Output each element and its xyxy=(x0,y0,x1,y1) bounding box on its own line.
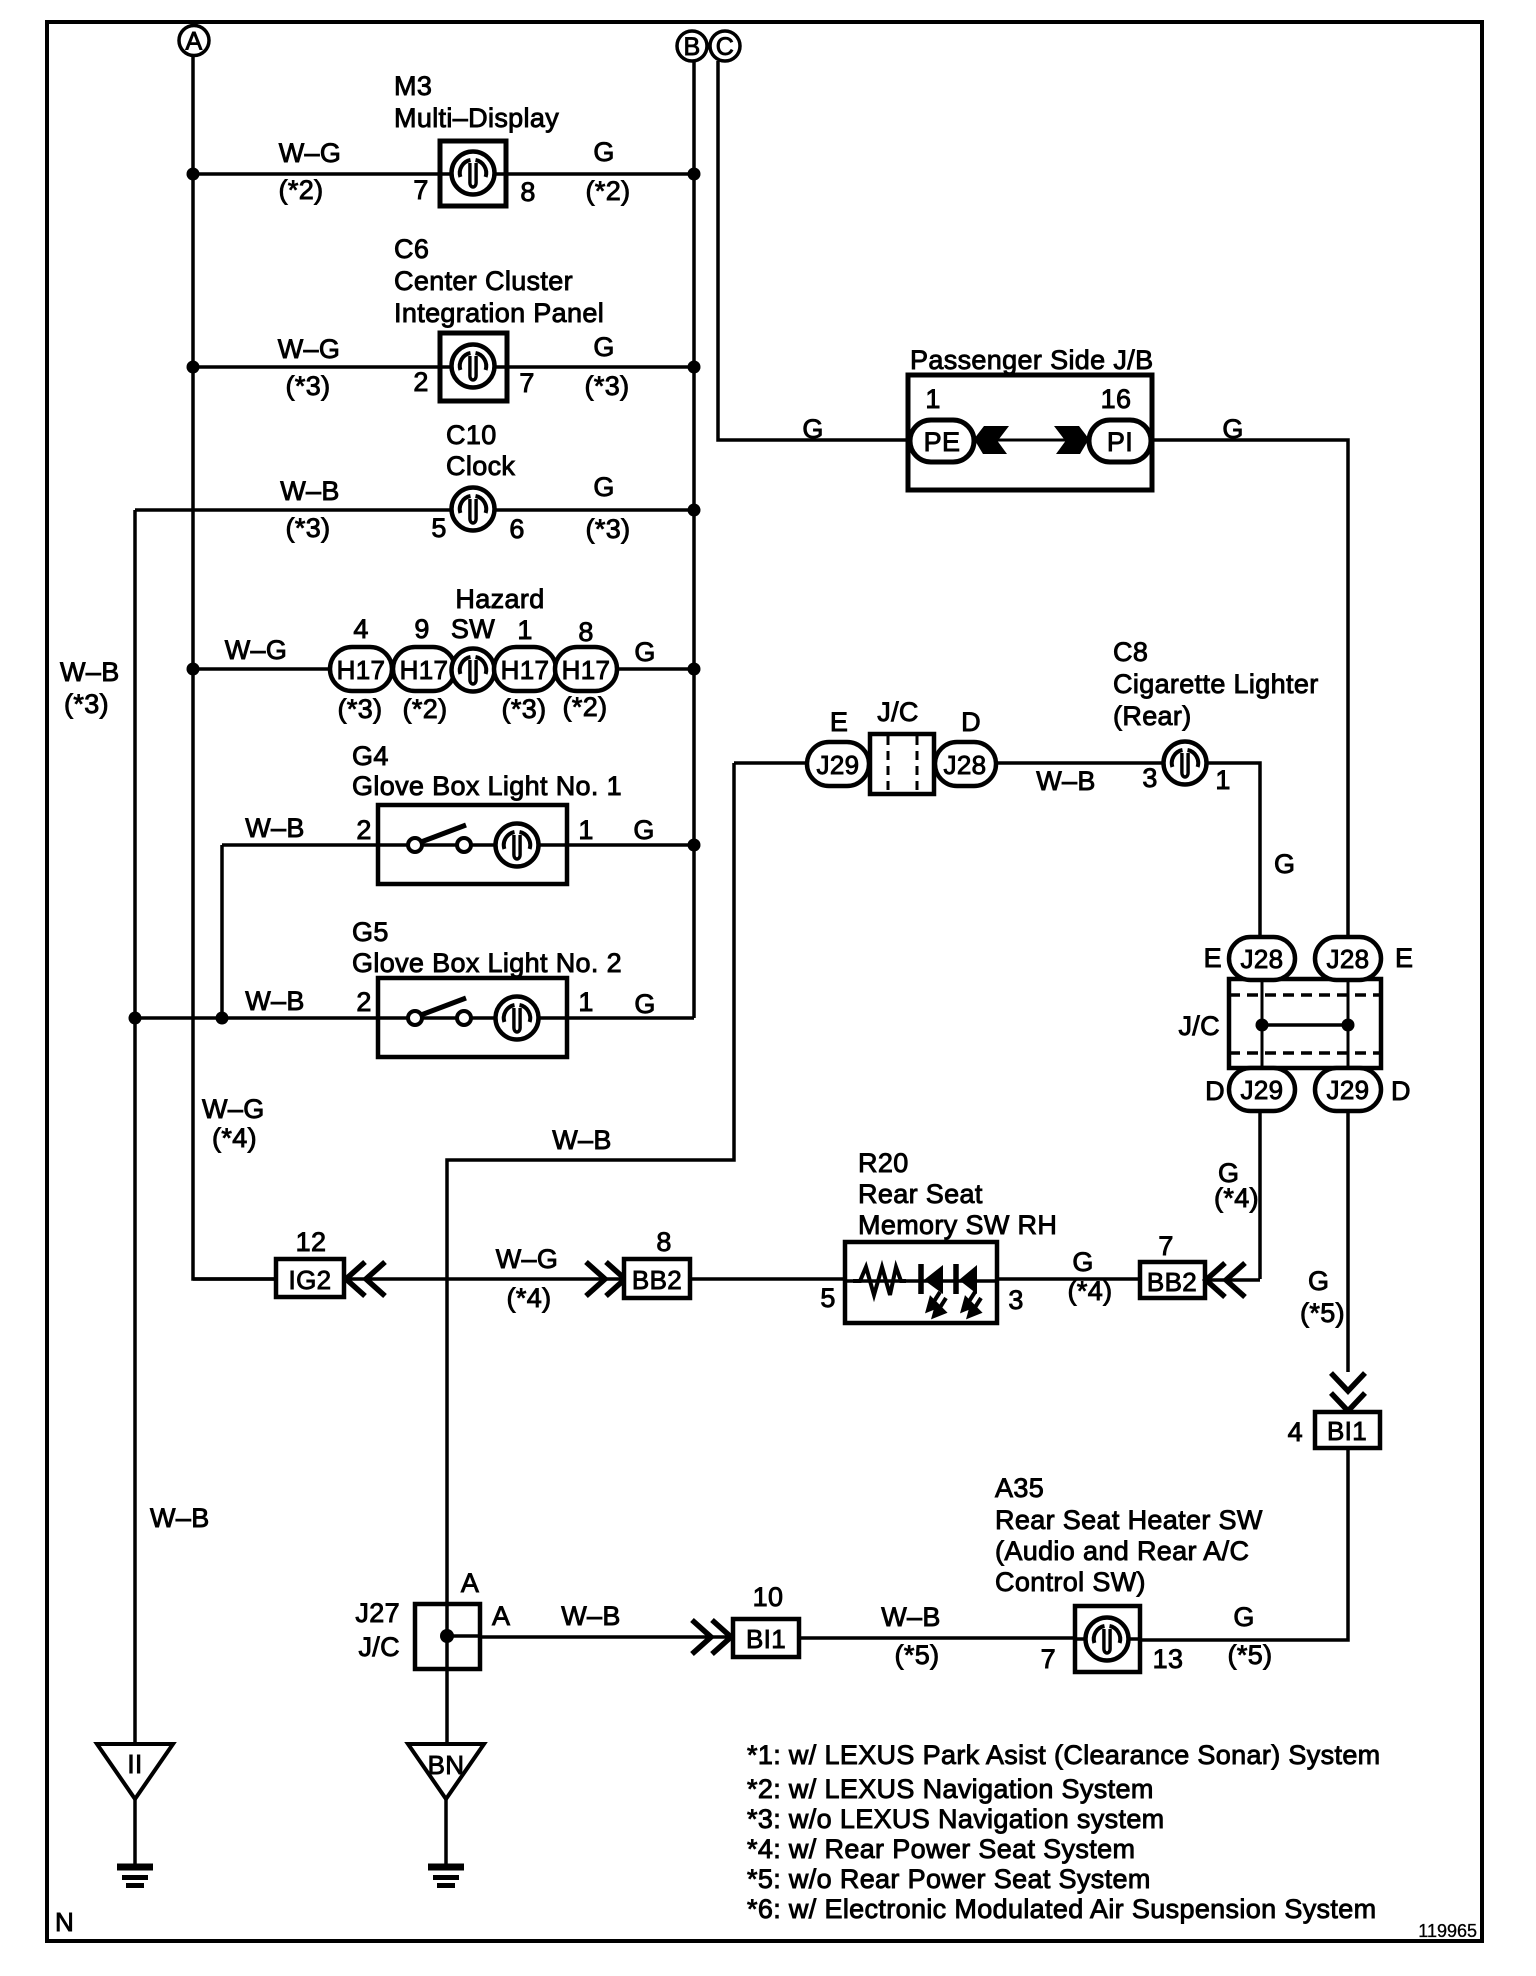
svg-text:(*4): (*4) xyxy=(1214,1183,1259,1213)
svg-text:J28: J28 xyxy=(944,750,987,780)
svg-text:BB2: BB2 xyxy=(1147,1267,1197,1297)
svg-text:5: 5 xyxy=(820,1283,835,1313)
svg-text:9: 9 xyxy=(414,614,429,644)
svg-text:W–B: W–B xyxy=(60,657,120,687)
svg-text:(*3): (*3) xyxy=(585,371,630,401)
svg-text:A: A xyxy=(185,28,202,56)
svg-text:J28: J28 xyxy=(1241,944,1284,974)
svg-text:(*2): (*2) xyxy=(586,176,631,206)
svg-text:*5: w/o Rear Power Seat System: *5: w/o Rear Power Seat System xyxy=(747,1864,1151,1894)
svg-text:(*4): (*4) xyxy=(1068,1276,1113,1306)
svg-text:G: G xyxy=(633,815,654,845)
svg-text:Glove Box Light No. 1: Glove Box Light No. 1 xyxy=(352,771,622,801)
svg-text:H17: H17 xyxy=(562,655,611,685)
svg-text:A: A xyxy=(492,1601,510,1631)
svg-text:W–G: W–G xyxy=(225,635,288,665)
svg-text:J29: J29 xyxy=(1327,1075,1370,1105)
svg-text:J/C: J/C xyxy=(877,697,919,727)
svg-text:Rear Seat Heater SW: Rear Seat Heater SW xyxy=(995,1505,1263,1535)
svg-text:R20: R20 xyxy=(858,1148,909,1178)
svg-text:BB2: BB2 xyxy=(632,1265,682,1295)
svg-text:Control SW): Control SW) xyxy=(995,1567,1146,1597)
svg-text:1: 1 xyxy=(925,384,940,414)
svg-text:2: 2 xyxy=(356,815,371,845)
svg-text:W–G: W–G xyxy=(202,1094,265,1124)
svg-text:119965: 119965 xyxy=(1418,1921,1477,1941)
svg-text:G: G xyxy=(634,989,655,1019)
svg-text:W–B: W–B xyxy=(245,813,305,843)
svg-text:Glove Box Light No. 2: Glove Box Light No. 2 xyxy=(352,948,622,978)
svg-text:10: 10 xyxy=(753,1582,784,1612)
svg-text:W–B: W–B xyxy=(552,1125,612,1155)
svg-text:Cigarette Lighter: Cigarette Lighter xyxy=(1113,669,1319,699)
svg-text:Integration Panel: Integration Panel xyxy=(394,298,604,328)
svg-text:J/C: J/C xyxy=(358,1632,400,1662)
svg-text:J27: J27 xyxy=(355,1598,400,1628)
svg-text:Passenger Side J/B: Passenger Side J/B xyxy=(910,345,1153,375)
svg-text:C6: C6 xyxy=(394,234,429,264)
svg-text:B: B xyxy=(683,33,700,61)
svg-text:N: N xyxy=(55,1907,74,1937)
svg-text:BI1: BI1 xyxy=(1327,1416,1367,1446)
svg-text:G: G xyxy=(593,472,614,502)
svg-text:W–B: W–B xyxy=(245,986,305,1016)
svg-text:4: 4 xyxy=(353,614,368,644)
svg-text:Hazard: Hazard xyxy=(455,584,544,614)
svg-text:C8: C8 xyxy=(1113,637,1148,667)
svg-text:(*5): (*5) xyxy=(895,1640,940,1670)
svg-text:M3: M3 xyxy=(394,71,432,101)
svg-text:J29: J29 xyxy=(817,750,860,780)
svg-text:C: C xyxy=(716,33,734,61)
svg-text:5: 5 xyxy=(431,513,446,543)
svg-text:(Audio and Rear A/C: (Audio and Rear A/C xyxy=(995,1536,1249,1566)
svg-text:A: A xyxy=(461,1568,479,1598)
svg-text:G: G xyxy=(1274,849,1295,879)
svg-text:G: G xyxy=(1233,1602,1254,1632)
svg-text:G: G xyxy=(1308,1266,1329,1296)
svg-text:Rear Seat: Rear Seat xyxy=(858,1179,983,1209)
svg-text:E: E xyxy=(830,707,848,737)
svg-text:12: 12 xyxy=(296,1227,327,1257)
svg-text:3: 3 xyxy=(1008,1285,1023,1315)
svg-text:W–B: W–B xyxy=(150,1503,210,1533)
svg-text:*1: w/ LEXUS Park Asist (Clear: *1: w/ LEXUS Park Asist (Clearance Sonar… xyxy=(747,1740,1381,1770)
svg-text:(*3): (*3) xyxy=(586,514,631,544)
svg-text:BN: BN xyxy=(428,1750,465,1780)
svg-text:1: 1 xyxy=(1215,765,1230,795)
svg-text:Clock: Clock xyxy=(446,451,515,481)
svg-text:G: G xyxy=(1072,1247,1093,1277)
svg-text:J/C: J/C xyxy=(1178,1011,1220,1041)
svg-text:(*5): (*5) xyxy=(1300,1298,1345,1328)
svg-text:Multi–Display: Multi–Display xyxy=(394,103,559,133)
svg-text:W–B: W–B xyxy=(881,1602,941,1632)
svg-text:E: E xyxy=(1204,943,1222,973)
svg-text:II: II xyxy=(127,1749,142,1779)
svg-text:G: G xyxy=(593,137,614,167)
svg-text:(*5): (*5) xyxy=(1228,1640,1273,1670)
svg-text:W–B: W–B xyxy=(280,476,340,506)
svg-text:H17: H17 xyxy=(337,655,386,685)
svg-text:(*3): (*3) xyxy=(286,513,331,543)
svg-text:SW: SW xyxy=(451,614,495,644)
svg-text:BI1: BI1 xyxy=(746,1624,786,1654)
svg-text:A35: A35 xyxy=(995,1473,1044,1503)
svg-text:J29: J29 xyxy=(1241,1075,1284,1105)
svg-text:(*2): (*2) xyxy=(279,175,324,205)
svg-text:16: 16 xyxy=(1101,384,1132,414)
svg-text:7: 7 xyxy=(519,368,534,398)
svg-text:Memory SW RH: Memory SW RH xyxy=(858,1210,1057,1240)
svg-text:(*2): (*2) xyxy=(563,692,608,722)
svg-text:8: 8 xyxy=(656,1227,671,1257)
svg-text:W–G: W–G xyxy=(496,1244,559,1274)
svg-text:H17: H17 xyxy=(501,655,550,685)
svg-text:W–G: W–G xyxy=(278,334,341,364)
svg-text:*2: w/ LEXUS Navigation System: *2: w/ LEXUS Navigation System xyxy=(747,1774,1154,1804)
svg-text:13: 13 xyxy=(1153,1644,1184,1674)
svg-text:J28: J28 xyxy=(1327,944,1370,974)
svg-text:3: 3 xyxy=(1142,763,1157,793)
svg-text:7: 7 xyxy=(413,175,428,205)
svg-text:8: 8 xyxy=(578,617,593,647)
svg-text:D: D xyxy=(1391,1076,1411,1106)
svg-text:4: 4 xyxy=(1288,1417,1303,1447)
svg-text:G: G xyxy=(802,414,823,444)
svg-text:1: 1 xyxy=(578,815,593,845)
svg-text:(*3): (*3) xyxy=(64,689,109,719)
svg-text:IG2: IG2 xyxy=(289,1265,332,1295)
svg-text:G: G xyxy=(593,332,614,362)
svg-text:W–B: W–B xyxy=(561,1601,621,1631)
svg-text:H17: H17 xyxy=(400,655,449,685)
svg-text:7: 7 xyxy=(1158,1231,1173,1261)
svg-text:W–G: W–G xyxy=(279,138,342,168)
svg-text:PI: PI xyxy=(1107,427,1133,457)
svg-text:(*3): (*3) xyxy=(502,694,547,724)
svg-text:PE: PE xyxy=(924,427,961,457)
svg-text:2: 2 xyxy=(356,987,371,1017)
svg-text:C10: C10 xyxy=(446,420,497,450)
svg-text:*6: w/ Electronic Modulated Ai: *6: w/ Electronic Modulated Air Suspensi… xyxy=(747,1894,1376,1924)
svg-text:1: 1 xyxy=(517,615,532,645)
svg-text:D: D xyxy=(961,707,981,737)
svg-text:(*3): (*3) xyxy=(338,694,383,724)
svg-text:E: E xyxy=(1395,943,1413,973)
svg-text:8: 8 xyxy=(520,177,535,207)
svg-text:(*4): (*4) xyxy=(507,1283,552,1313)
svg-text:*4: w/ Rear Power Seat System: *4: w/ Rear Power Seat System xyxy=(747,1834,1135,1864)
svg-text:(*2): (*2) xyxy=(403,694,448,724)
svg-text:7: 7 xyxy=(1041,1644,1056,1674)
svg-text:*3: w/o LEXUS Navigation syste: *3: w/o LEXUS Navigation system xyxy=(747,1804,1165,1834)
svg-text:G4: G4 xyxy=(352,741,389,771)
svg-text:D: D xyxy=(1205,1076,1225,1106)
svg-text:(Rear): (Rear) xyxy=(1113,701,1192,731)
svg-text:1: 1 xyxy=(578,987,593,1017)
svg-text:W–B: W–B xyxy=(1036,766,1096,796)
svg-text:(*3): (*3) xyxy=(286,371,331,401)
svg-text:Center Cluster: Center Cluster xyxy=(394,266,573,296)
svg-text:G: G xyxy=(1222,414,1243,444)
svg-text:(*4): (*4) xyxy=(212,1123,257,1153)
svg-text:G: G xyxy=(634,637,655,667)
svg-text:6: 6 xyxy=(509,514,524,544)
svg-text:G5: G5 xyxy=(352,917,389,947)
svg-text:2: 2 xyxy=(413,367,428,397)
